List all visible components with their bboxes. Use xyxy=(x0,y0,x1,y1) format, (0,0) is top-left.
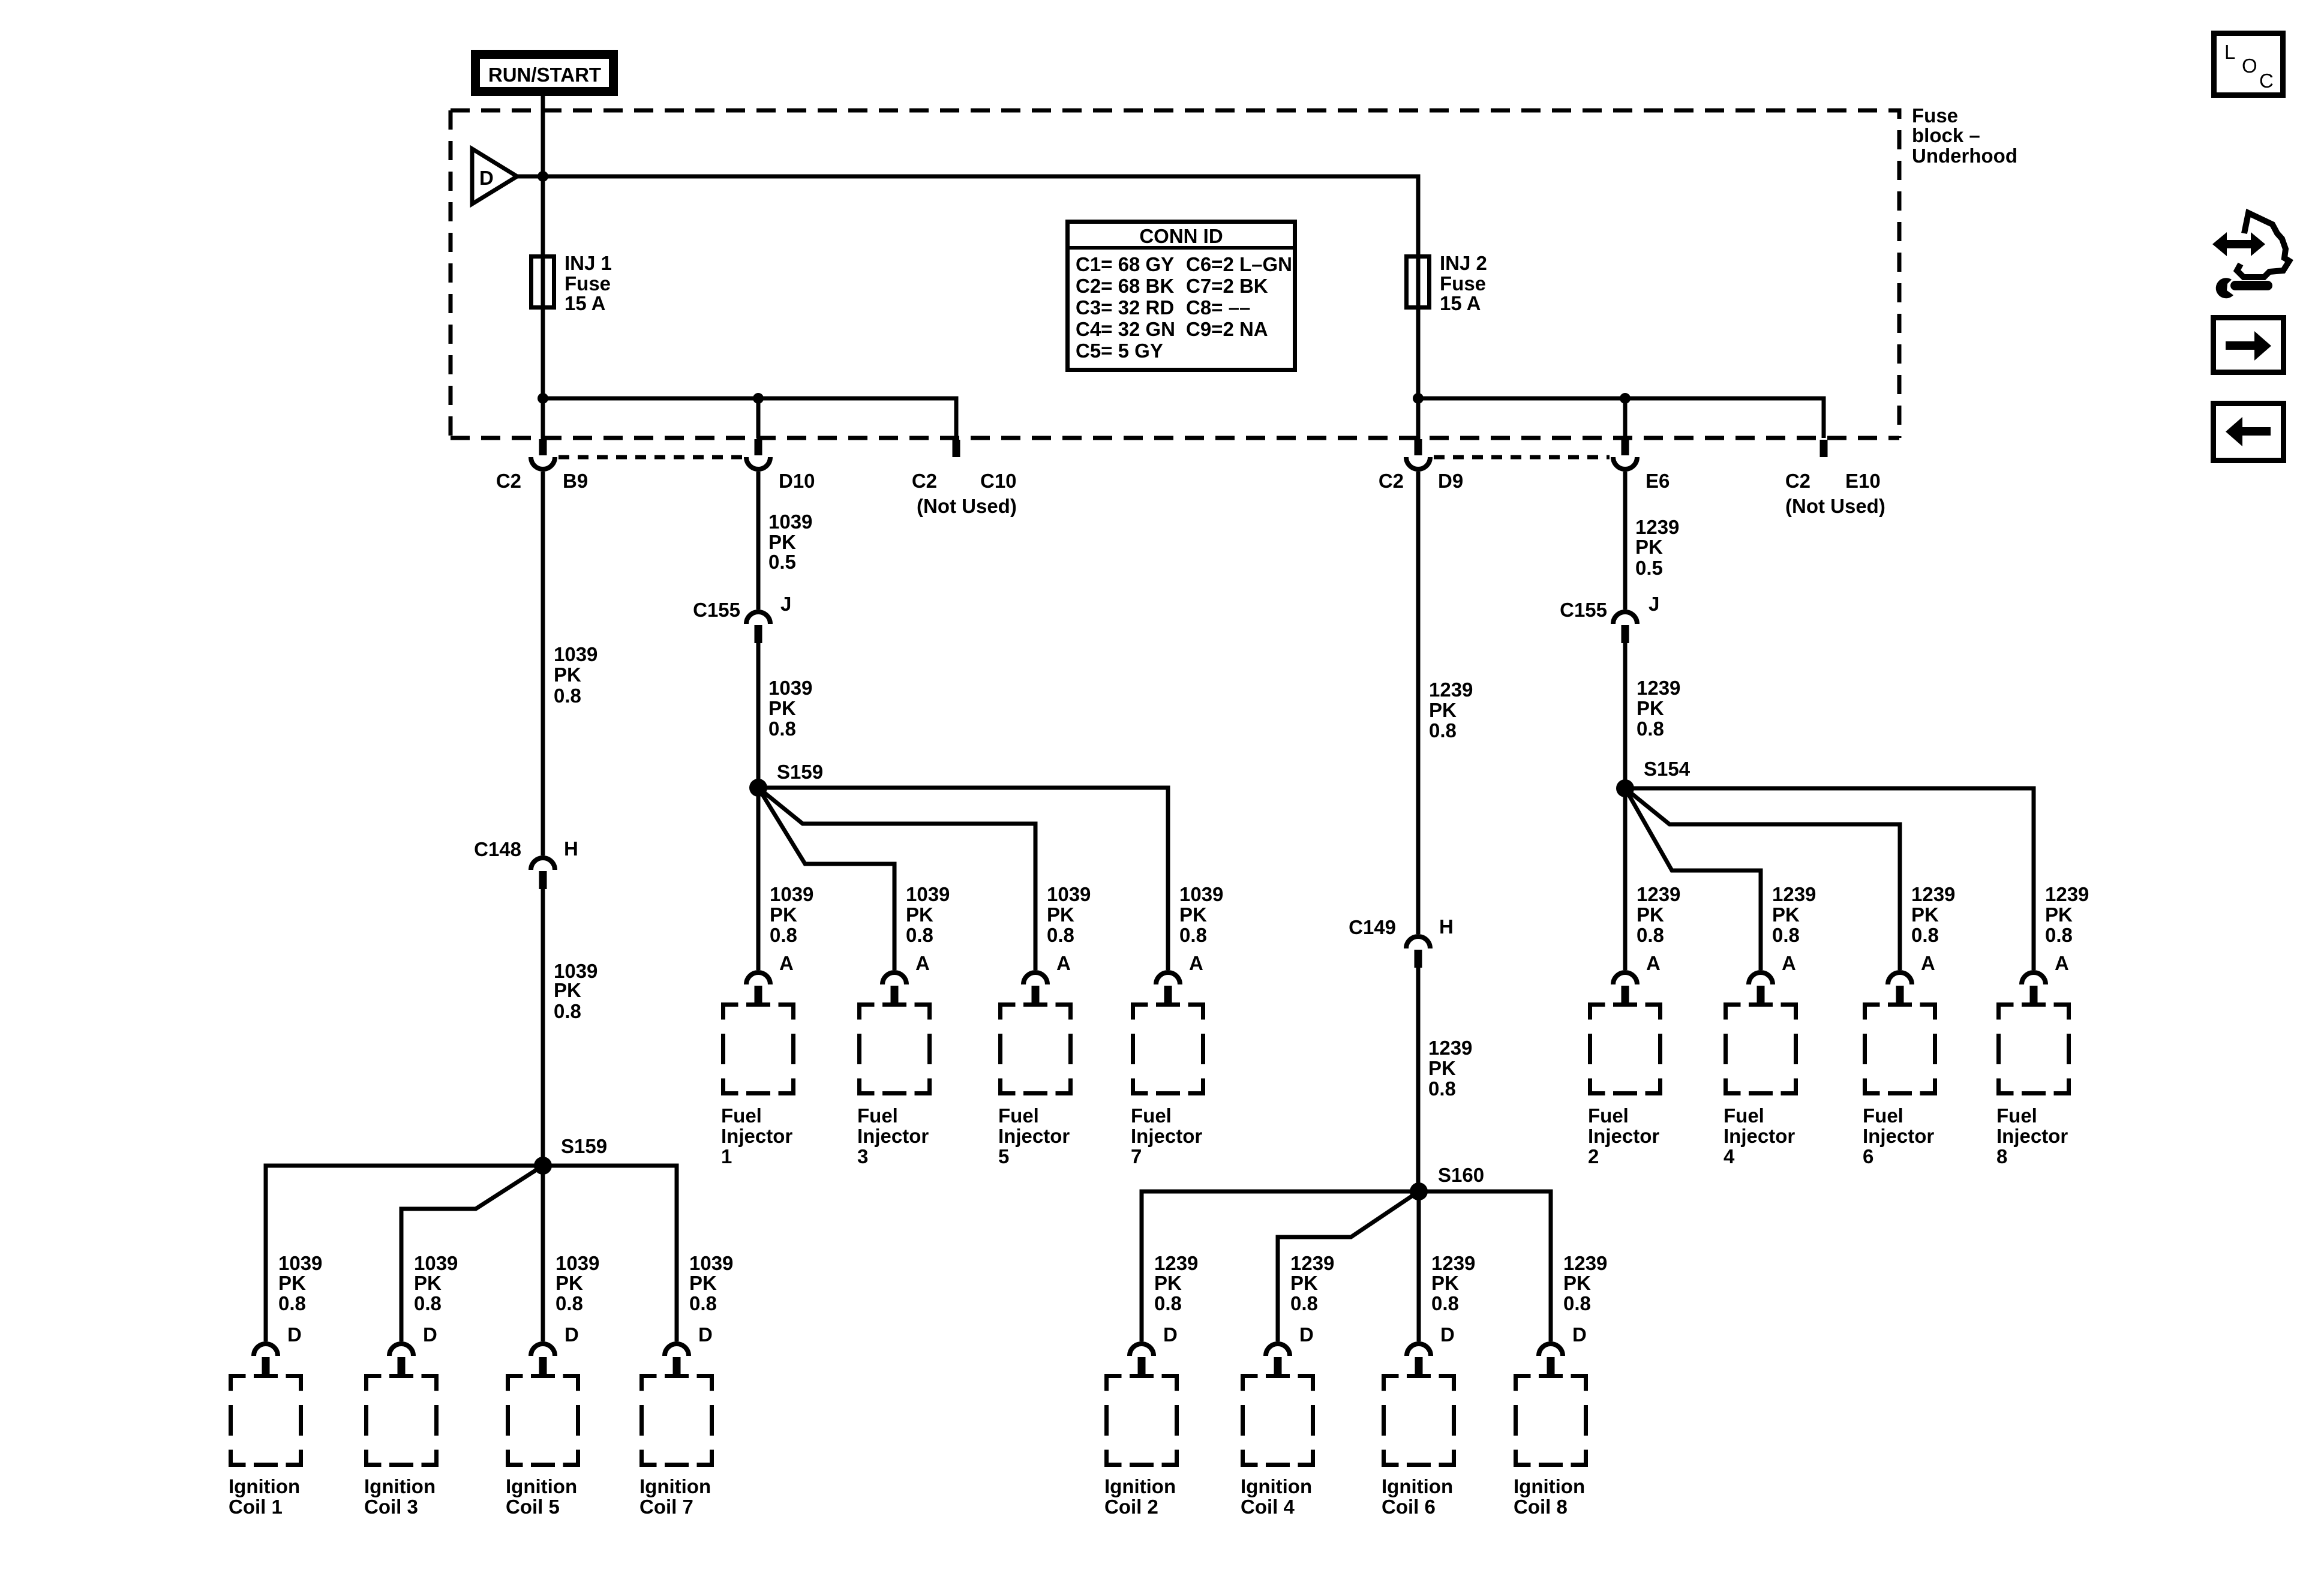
svg-text:1239: 1239 xyxy=(1911,883,1955,905)
wire S159 to injector 5 xyxy=(758,788,1035,970)
svg-text:D: D xyxy=(1440,1323,1455,1346)
svg-text:PK: PK xyxy=(768,697,796,719)
coil branch wire labels 1039 PK 0.8 x4 xyxy=(278,1252,733,1314)
fuse block label xyxy=(1912,104,2017,167)
svg-text:PK: PK xyxy=(278,1272,306,1294)
fuel injector 1 box xyxy=(721,1005,794,1168)
svg-text:C155: C155 xyxy=(693,599,740,621)
svg-text:0.8: 0.8 xyxy=(278,1292,306,1314)
svg-text:Injector: Injector xyxy=(1996,1125,2068,1147)
svg-text:E10: E10 xyxy=(1845,470,1881,492)
svg-text:7: 7 xyxy=(1131,1145,1142,1167)
splice S159 lower xyxy=(534,1135,607,1175)
svg-text:0.8: 0.8 xyxy=(2045,924,2073,946)
svg-text:0.8: 0.8 xyxy=(689,1292,717,1314)
component location car icon xyxy=(2212,213,2289,298)
svg-text:C149: C149 xyxy=(1349,916,1396,938)
wire label 1239 PK 0.8 (D9 upper) xyxy=(1429,679,1473,742)
svg-text:3: 3 xyxy=(857,1145,868,1167)
next page arrow icon xyxy=(2214,318,2284,373)
ignition coil 6 box xyxy=(1382,1376,1454,1518)
svg-text:PK: PK xyxy=(554,664,581,686)
svg-text:1: 1 xyxy=(721,1145,732,1167)
CONN ID table xyxy=(1065,222,1297,370)
svg-text:15 A: 15 A xyxy=(1440,292,1481,314)
ignition coil 5 box xyxy=(506,1376,578,1518)
wire S154 to injector 8 xyxy=(1625,788,2034,970)
ignition coil 1 box xyxy=(229,1376,301,1518)
svg-text:PK: PK xyxy=(1154,1272,1182,1294)
svg-text:D: D xyxy=(1299,1323,1314,1346)
svg-text:8: 8 xyxy=(1996,1145,2007,1167)
svg-text:0.8: 0.8 xyxy=(770,924,797,946)
wire label 1239 PK 0.8 (D9 lower) xyxy=(1428,1037,1472,1100)
coil pin D connectors x8 xyxy=(254,1323,1587,1375)
svg-text:Fuel: Fuel xyxy=(1724,1104,1764,1127)
svg-text:PK: PK xyxy=(1047,903,1074,926)
ignition coil 3 box xyxy=(364,1376,437,1518)
fuse INJ 2 xyxy=(1407,252,1487,314)
svg-text:D: D xyxy=(479,167,494,189)
svg-text:1039: 1039 xyxy=(906,883,950,905)
svg-text:1039: 1039 xyxy=(768,511,812,533)
svg-text:Coil 4: Coil 4 xyxy=(1241,1496,1295,1518)
junction node at D/RUN-START xyxy=(538,171,548,182)
svg-text:0.8: 0.8 xyxy=(1428,1077,1456,1100)
svg-text:0.8: 0.8 xyxy=(768,718,796,740)
dotted connector C2 link left xyxy=(559,455,743,460)
svg-text:D: D xyxy=(565,1323,579,1346)
wire S160 to coil 8 xyxy=(1419,1191,1551,1341)
svg-text:Fuel: Fuel xyxy=(721,1104,762,1127)
injector pin A connectors x8 xyxy=(746,952,2069,1004)
svg-text:C2= 68 BK: C2= 68 BK xyxy=(1076,275,1174,297)
svg-text:Ignition: Ignition xyxy=(229,1475,300,1497)
wire S160 to coil 4 xyxy=(1278,1191,1419,1341)
svg-text:Coil 7: Coil 7 xyxy=(639,1496,693,1518)
svg-text:C2: C2 xyxy=(912,470,937,492)
svg-text:C7=2 BK: C7=2 BK xyxy=(1186,275,1268,297)
svg-text:0.8: 0.8 xyxy=(1290,1292,1318,1314)
wire label 1039 PK 0.5 xyxy=(768,511,812,573)
svg-text:C6=2 L–GN: C6=2 L–GN xyxy=(1186,253,1292,275)
svg-text:A: A xyxy=(1646,952,1661,974)
svg-text:C10: C10 xyxy=(980,470,1017,492)
svg-text:Coil 3: Coil 3 xyxy=(364,1496,418,1518)
wire S160 to coil 6 xyxy=(1417,1191,1421,1341)
connector C2 pin C10 not used stub xyxy=(953,440,960,457)
svg-text:0.8: 0.8 xyxy=(554,1000,581,1022)
fuse INJ 1 xyxy=(532,252,612,314)
svg-text:H: H xyxy=(564,837,578,860)
svg-text:1239: 1239 xyxy=(1637,883,1680,905)
connector C2 pin E10 not used stub xyxy=(1820,440,1828,457)
wire S159 to coil 5 xyxy=(541,1166,545,1341)
wire label 1039 PK 0.8 (B9 lower) xyxy=(554,960,597,1022)
wire D9 to C149 xyxy=(1416,472,1421,934)
svg-text:PK: PK xyxy=(1428,1057,1456,1079)
LOC icon box xyxy=(2214,34,2283,95)
svg-text:1239: 1239 xyxy=(1563,1252,1607,1274)
injector branch wire labels 1039 PK 0.8 x4 xyxy=(770,883,1223,946)
svg-text:A: A xyxy=(1189,952,1203,974)
svg-text:S154: S154 xyxy=(1644,758,1691,780)
svg-text:Coil 8: Coil 8 xyxy=(1514,1496,1568,1518)
svg-text:0.8: 0.8 xyxy=(1431,1292,1459,1314)
wire C155 to S154 xyxy=(1623,643,1628,788)
svg-text:Ignition: Ignition xyxy=(1382,1475,1453,1497)
svg-text:Underhood: Underhood xyxy=(1912,145,2017,167)
right bus inside fuse block xyxy=(1418,398,1824,438)
svg-text:Ignition: Ignition xyxy=(506,1475,577,1497)
svg-text:0.8: 0.8 xyxy=(1637,718,1664,740)
fuel injector 8 box xyxy=(1996,1005,2069,1168)
coil branch wire labels 1239 PK 0.8 x4 xyxy=(1154,1252,1607,1314)
svg-text:1239: 1239 xyxy=(1290,1252,1334,1274)
svg-text:A: A xyxy=(779,952,794,974)
svg-text:Ignition: Ignition xyxy=(639,1475,711,1497)
svg-text:PK: PK xyxy=(1290,1272,1318,1294)
svg-text:1039: 1039 xyxy=(1179,883,1223,905)
svg-text:block –: block – xyxy=(1912,124,1980,146)
svg-text:6: 6 xyxy=(1863,1145,1873,1167)
svg-text:0.8: 0.8 xyxy=(1429,719,1457,742)
ignition coil 4 box xyxy=(1241,1376,1313,1518)
dotted connector C2 link right xyxy=(1434,455,1610,460)
svg-text:Fuel: Fuel xyxy=(1588,1104,1629,1127)
svg-text:1039: 1039 xyxy=(768,677,812,699)
svg-text:J: J xyxy=(1649,593,1659,615)
wire C149 to S160 xyxy=(1416,968,1421,1191)
svg-text:Coil 2: Coil 2 xyxy=(1104,1496,1158,1518)
fuel injector 7 box xyxy=(1131,1005,1203,1168)
wire from triangle D to INJ2 branch xyxy=(517,176,1418,440)
svg-text:5: 5 xyxy=(998,1145,1009,1167)
svg-text:C3= 32 RD: C3= 32 RD xyxy=(1076,296,1174,319)
svg-text:PK: PK xyxy=(554,979,581,1001)
wire label 1239 PK 0.8 (E6 lower) xyxy=(1637,677,1680,740)
wire D10 to C155 xyxy=(756,472,761,610)
svg-text:INJ 1: INJ 1 xyxy=(565,252,612,274)
svg-text:0.8: 0.8 xyxy=(414,1292,442,1314)
svg-text:1239: 1239 xyxy=(1431,1252,1475,1274)
svg-text:PK: PK xyxy=(1637,697,1664,719)
svg-text:S159: S159 xyxy=(561,1135,607,1157)
svg-text:PK: PK xyxy=(1637,903,1664,926)
fuel injector 5 box xyxy=(998,1005,1071,1168)
svg-text:C2: C2 xyxy=(496,470,521,492)
svg-text:0.8: 0.8 xyxy=(1154,1292,1182,1314)
fuel injector 4 box xyxy=(1724,1005,1796,1168)
svg-text:Fuse: Fuse xyxy=(565,272,611,295)
wire S154 to injector 2 xyxy=(1623,788,1628,970)
triangle D xyxy=(472,149,517,204)
svg-text:Ignition: Ignition xyxy=(1104,1475,1176,1497)
fuel injector 3 box xyxy=(857,1005,930,1168)
svg-text:1039: 1039 xyxy=(556,1252,599,1274)
svg-text:Fuel: Fuel xyxy=(1131,1104,1172,1127)
connector C2 pin E6 xyxy=(1613,439,1637,469)
svg-text:Injector: Injector xyxy=(998,1125,1070,1147)
fuel injector 6 box xyxy=(1863,1005,1935,1168)
svg-text:D: D xyxy=(698,1323,713,1346)
wire B9 to C148 xyxy=(541,472,545,855)
svg-text:PK: PK xyxy=(1772,903,1800,926)
svg-text:Fuel: Fuel xyxy=(857,1104,898,1127)
svg-text:PK: PK xyxy=(770,903,797,926)
svg-text:1239: 1239 xyxy=(2045,883,2089,905)
connector C148 H xyxy=(474,837,578,889)
svg-text:0.8: 0.8 xyxy=(554,685,581,707)
injector branch wire labels 1239 PK 0.8 x4 xyxy=(1637,883,2089,946)
svg-text:4: 4 xyxy=(1724,1145,1735,1167)
svg-text:0.8: 0.8 xyxy=(1772,924,1800,946)
svg-text:0.8: 0.8 xyxy=(906,924,933,946)
svg-text:Ignition: Ignition xyxy=(364,1475,436,1497)
svg-text:PK: PK xyxy=(1635,536,1663,558)
svg-text:PK: PK xyxy=(689,1272,717,1294)
connector C2 pin B9 xyxy=(531,439,555,469)
wire S159 to coil 7 xyxy=(543,1166,677,1341)
ignition coil 7 box xyxy=(639,1376,712,1518)
svg-text:S159: S159 xyxy=(777,761,823,783)
svg-text:1039: 1039 xyxy=(278,1252,322,1274)
svg-text:C8= ––: C8= –– xyxy=(1186,296,1250,319)
connector C149 H xyxy=(1349,915,1454,968)
svg-text:(Not Used): (Not Used) xyxy=(917,495,1017,517)
svg-text:0.8: 0.8 xyxy=(556,1292,583,1314)
splice S154 xyxy=(1616,758,1691,797)
svg-text:15 A: 15 A xyxy=(565,292,605,314)
svg-text:Coil 1: Coil 1 xyxy=(229,1496,283,1518)
wire label 1239 PK 0.5 xyxy=(1635,516,1679,579)
wire C155 to S159 xyxy=(756,643,761,788)
svg-text:RUN/START: RUN/START xyxy=(488,64,601,86)
wire S154 to injector 4 xyxy=(1625,788,1761,970)
svg-text:Injector: Injector xyxy=(1863,1125,1934,1147)
fuse block - underhood dashed border xyxy=(451,110,1899,438)
svg-text:L: L xyxy=(2224,41,2235,63)
svg-text:D: D xyxy=(287,1323,302,1346)
svg-text:PK: PK xyxy=(1429,699,1457,721)
svg-text:C2: C2 xyxy=(1379,470,1404,492)
svg-text:C5= 5 GY: C5= 5 GY xyxy=(1076,340,1163,362)
svg-text:D: D xyxy=(423,1323,437,1346)
svg-text:1039: 1039 xyxy=(689,1252,733,1274)
wire S159 to injector 1 xyxy=(756,788,761,970)
wire from RUN/START down to B9 xyxy=(541,96,545,440)
svg-text:E6: E6 xyxy=(1646,470,1670,492)
svg-text:PK: PK xyxy=(1911,903,1939,926)
svg-text:C2: C2 xyxy=(1785,470,1810,492)
wire E6 to C155 xyxy=(1623,472,1628,610)
svg-text:Fuse: Fuse xyxy=(1912,104,1958,127)
svg-text:S160: S160 xyxy=(1438,1164,1484,1186)
svg-text:1239: 1239 xyxy=(1428,1037,1472,1059)
svg-text:C4= 32 GN: C4= 32 GN xyxy=(1076,318,1175,340)
svg-text:PK: PK xyxy=(1563,1272,1591,1294)
svg-text:1039: 1039 xyxy=(414,1252,458,1274)
svg-text:INJ 2: INJ 2 xyxy=(1440,252,1487,274)
wire S159 to injector 3 xyxy=(758,788,894,970)
svg-text:1039: 1039 xyxy=(1047,883,1091,905)
svg-text:1239: 1239 xyxy=(1772,883,1816,905)
wire label 1039 PK 0.8 (B9 upper) xyxy=(554,643,597,707)
svg-text:CONN ID: CONN ID xyxy=(1139,225,1223,247)
svg-text:Coil 5: Coil 5 xyxy=(506,1496,560,1518)
connector C2 pin D10 xyxy=(746,439,770,469)
svg-text:1239: 1239 xyxy=(1154,1252,1198,1274)
svg-text:Coil 6: Coil 6 xyxy=(1382,1496,1436,1518)
svg-text:PK: PK xyxy=(1179,903,1207,926)
svg-text:O: O xyxy=(2242,55,2257,77)
svg-text:B9: B9 xyxy=(563,470,588,492)
svg-text:A: A xyxy=(2055,952,2069,974)
svg-text:PK: PK xyxy=(2045,903,2073,926)
svg-text:J: J xyxy=(780,593,791,615)
svg-text:C148: C148 xyxy=(474,838,521,860)
svg-text:C9=2 NA: C9=2 NA xyxy=(1186,318,1268,340)
wire S159 to coil 1 xyxy=(266,1166,543,1341)
svg-text:Ignition: Ignition xyxy=(1241,1475,1312,1497)
svg-text:Injector: Injector xyxy=(1131,1125,1202,1147)
wire C148 to S159 xyxy=(541,889,545,1166)
svg-text:PK: PK xyxy=(906,903,933,926)
svg-text:H: H xyxy=(1439,915,1454,938)
svg-text:PK: PK xyxy=(414,1272,442,1294)
svg-text:D: D xyxy=(1572,1323,1587,1346)
svg-text:0.8: 0.8 xyxy=(1563,1292,1591,1314)
svg-text:A: A xyxy=(1921,952,1935,974)
splice S160 xyxy=(1410,1164,1484,1200)
svg-text:Fuse: Fuse xyxy=(1440,272,1486,295)
svg-text:C1= 68 GY: C1= 68 GY xyxy=(1076,253,1174,275)
ignition coil 8 box xyxy=(1514,1376,1586,1518)
svg-text:Injector: Injector xyxy=(721,1125,792,1147)
svg-text:0.8: 0.8 xyxy=(1047,924,1074,946)
wire S154 to injector 6 xyxy=(1625,788,1900,970)
svg-text:1039: 1039 xyxy=(770,883,813,905)
svg-text:Injector: Injector xyxy=(857,1125,929,1147)
svg-text:0.8: 0.8 xyxy=(1911,924,1939,946)
svg-text:A: A xyxy=(915,952,930,974)
svg-text:0.5: 0.5 xyxy=(768,551,796,573)
svg-text:0.8: 0.8 xyxy=(1637,924,1664,946)
svg-text:2: 2 xyxy=(1588,1145,1599,1167)
svg-text:Fuel: Fuel xyxy=(998,1104,1039,1127)
svg-text:(Not Used): (Not Used) xyxy=(1785,495,1885,517)
connector C2 pin D9 xyxy=(1406,439,1430,469)
svg-text:1239: 1239 xyxy=(1637,677,1680,699)
RUN/START box xyxy=(476,55,614,92)
wire S159 to coil 3 xyxy=(401,1166,543,1341)
wire label 1039 PK 0.8 (D10 lower) xyxy=(768,677,812,740)
svg-text:0.5: 0.5 xyxy=(1635,557,1663,579)
svg-text:0.8: 0.8 xyxy=(1179,924,1207,946)
connector C155 J (left) xyxy=(693,593,791,643)
fuel injector 2 box xyxy=(1588,1005,1661,1168)
svg-text:C: C xyxy=(2259,70,2274,92)
svg-text:D10: D10 xyxy=(779,470,815,492)
svg-text:C155: C155 xyxy=(1560,599,1607,621)
svg-text:1239: 1239 xyxy=(1635,516,1679,538)
svg-text:D: D xyxy=(1163,1323,1178,1346)
svg-text:Fuel: Fuel xyxy=(1863,1104,1903,1127)
previous page arrow icon xyxy=(2214,404,2284,461)
wire S160 to coil 2 xyxy=(1142,1191,1419,1341)
svg-text:D9: D9 xyxy=(1438,470,1463,492)
svg-text:PK: PK xyxy=(768,531,796,553)
svg-text:Injector: Injector xyxy=(1724,1125,1795,1147)
svg-text:1239: 1239 xyxy=(1429,679,1473,701)
svg-text:Fuel: Fuel xyxy=(1996,1104,2037,1127)
left bus inside fuse block xyxy=(543,398,956,438)
svg-text:A: A xyxy=(1782,952,1796,974)
svg-text:PK: PK xyxy=(1431,1272,1459,1294)
svg-text:PK: PK xyxy=(556,1272,583,1294)
svg-text:1039: 1039 xyxy=(554,643,597,665)
wire S159 to injector 7 xyxy=(758,788,1168,970)
svg-text:Ignition: Ignition xyxy=(1514,1475,1585,1497)
splice S159 xyxy=(749,761,823,797)
ignition coil 2 box xyxy=(1104,1376,1177,1518)
svg-text:Injector: Injector xyxy=(1588,1125,1659,1147)
svg-text:A: A xyxy=(1056,952,1071,974)
connector C155 J (right) xyxy=(1560,593,1659,643)
